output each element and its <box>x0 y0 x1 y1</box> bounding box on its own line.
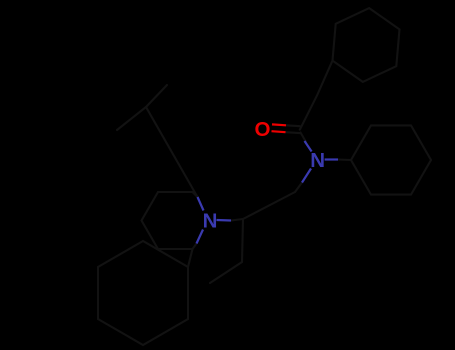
svg-text:O: O <box>255 118 271 141</box>
svg-text:N: N <box>203 209 218 232</box>
svg-text:N: N <box>310 149 325 172</box>
